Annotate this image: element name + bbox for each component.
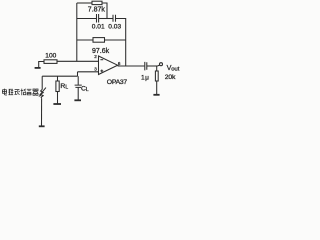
wire left vertical of feedback network (76, 3, 78, 61)
svg-text:7.87k: 7.87k (88, 6, 106, 13)
terminal circle Vout (160, 63, 163, 66)
wire 100 to ground (39, 62, 44, 68)
wire between caps (99, 18, 113, 20)
svg-text:RL: RL (60, 83, 68, 91)
wire CL to ground (77, 87, 79, 100)
pickup top lead (41, 76, 43, 89)
svg-text:2: 2 (94, 54, 97, 59)
svg-text:0.03: 0.03 (108, 23, 121, 30)
wire pin3 input (78, 71, 99, 73)
svg-text:CL: CL (81, 85, 89, 93)
wire pin2 input (57, 60, 99, 62)
resistor 100 (44, 60, 57, 64)
ground bar bottom left (39, 125, 45, 127)
capacitor C 0.01 (97, 14, 99, 23)
wire branch2 right + right vertical down to output (116, 19, 126, 67)
resistor 97.6k (93, 38, 105, 43)
wire RL to ground (57, 92, 59, 104)
ground bar at 100 resistor (35, 67, 41, 69)
wire branch 3 left (77, 39, 93, 41)
terminal lead to circle (157, 65, 159, 66)
ground bar at RL (53, 103, 61, 105)
svg-text:20k: 20k (165, 74, 176, 81)
svg-text:OPA37: OPA37 (107, 79, 128, 86)
capacitor C 0.03 (113, 15, 116, 22)
svg-text:3: 3 (94, 67, 97, 72)
ground bar at 20k (153, 94, 159, 96)
op-amp U OPA37 triangle (99, 56, 118, 75)
svg-text:1μ: 1μ (141, 74, 149, 81)
pickup arrowhead (38, 94, 42, 98)
capacitor 1u plates (145, 62, 147, 71)
wire 20k to ground (156, 81, 158, 94)
wire pin3 jog down (77, 72, 79, 76)
pickup bottom lead (41, 98, 43, 126)
resistor RL (56, 81, 59, 92)
wire branch 2 left (77, 18, 97, 20)
svg-text:0.01: 0.01 (92, 23, 105, 30)
capacitor CL plates (75, 85, 82, 87)
op-amp plus sign (100, 70, 103, 73)
wire output to terminal (147, 65, 158, 67)
svg-text:100: 100 (45, 53, 56, 60)
wire output (118, 65, 145, 67)
wire branch 3 right (105, 39, 126, 41)
wire down to 20k (156, 66, 158, 71)
wire branch1 right + drop to branch2 (102, 3, 107, 19)
svg-text:Vout: Vout (167, 63, 180, 72)
op-amp minus sign (100, 59, 103, 61)
pickup coil zigzag (41, 89, 44, 98)
wire input rail (42, 75, 77, 77)
pickup arrow (40, 88, 46, 96)
svg-text:6: 6 (118, 61, 121, 66)
wire feedback branch 1 top (77, 2, 92, 4)
ground bar at CL (74, 99, 81, 101)
resistor RL lead top (57, 76, 59, 81)
resistor 7.87k (92, 1, 102, 4)
resistor 20k (155, 71, 158, 81)
capacitor CL lead top (77, 76, 79, 85)
label chinese pickup text 电磁式拾音器 (2, 89, 38, 96)
